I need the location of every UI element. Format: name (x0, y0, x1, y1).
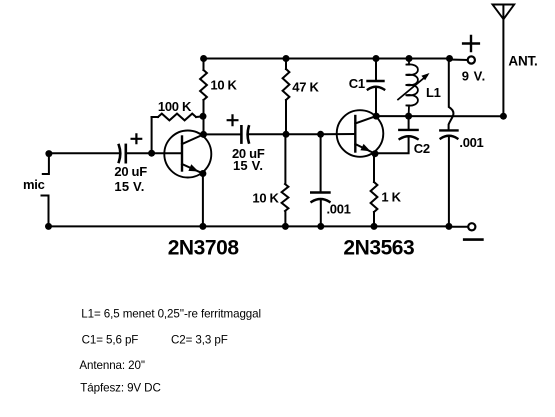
node 47K / 10K divider (283, 131, 290, 138)
node .001 at ground (317, 223, 324, 230)
svg-text:C2= 3,3 pF: C2= 3,3 pF (171, 333, 228, 346)
svg-text:20 uF: 20 uF (114, 164, 147, 179)
node C6 at ground (445, 223, 452, 230)
resistor R5 1K (371, 182, 378, 212)
node antenna junction (500, 113, 507, 120)
plus sign of input 20uF (132, 134, 142, 143)
wire bottom ground rail (49, 225, 450, 227)
capacitor C2 3.3pF (399, 130, 417, 139)
svg-text:9 V.: 9 V. (462, 68, 486, 83)
capacitor C6 .001 supply bypass (440, 130, 457, 138)
transistor Q1 2N3708 (152, 131, 212, 178)
wire C2 top lead (408, 116, 410, 130)
wire 1K bottom lead (373, 212, 375, 226)
svg-text:Tápfesz: 9V DC: Tápfesz: 9V DC (80, 381, 160, 394)
mic top node (45, 150, 52, 157)
mic connector (42, 154, 49, 227)
node 1K at ground (371, 223, 378, 230)
svg-text:ANT.: ANT. (508, 54, 537, 69)
wire Q2 emitter to 1K (373, 154, 375, 182)
wire 100K right lead (196, 115, 203, 118)
node Q2 collector (373, 113, 380, 120)
capacitor C1 5.6pF (368, 81, 385, 90)
node Q1 emitter (199, 170, 206, 177)
resistor R2 100K (158, 114, 196, 121)
wire C6 bottom lead (448, 137, 450, 227)
svg-text:C1= 5,6 pF: C1= 5,6 pF (82, 333, 139, 346)
wire divider node to .001 node (286, 133, 321, 135)
resistor R4 10K lower divider (282, 184, 289, 211)
wire .001 bottom lead (320, 200, 322, 227)
svg-text:100 K: 100 K (158, 99, 192, 114)
antenna (493, 5, 515, 117)
transistor Q2 2N3563 (337, 110, 384, 157)
svg-text:.001: .001 (327, 202, 351, 217)
svg-text:15 V.: 15 V. (233, 158, 263, 173)
svg-text:1 K: 1 K (381, 190, 401, 205)
svg-text:C1: C1 (349, 76, 365, 91)
wire to Q2 base (321, 133, 356, 135)
capacitor C4 20uF interstage (241, 126, 248, 142)
wire mic to C3 input cap (49, 152, 118, 154)
capacitor C3 20uF input coupling (119, 145, 126, 162)
node Q2 emitter (372, 150, 379, 157)
wire C1 top lead (375, 59, 377, 82)
svg-text:2N3563: 2N3563 (343, 236, 414, 259)
plus sign of interstage 20uF (228, 115, 238, 125)
svg-text:L1= 6,5 menet 0,25''-re ferrit: L1= 6,5 menet 0,25''-re ferritmaggal (81, 308, 261, 321)
wire 47K bottom lead (285, 100, 287, 134)
node C1 top (373, 55, 380, 62)
node 10K2 at ground (282, 223, 289, 230)
wire base node up to 100K (151, 117, 153, 153)
svg-text:47 K: 47 K (292, 80, 319, 95)
wire Q2 collector line to antenna junction (376, 115, 503, 117)
node L1 bottom / C2 top (405, 113, 412, 120)
wire top supply rail (204, 58, 450, 60)
node 100K to collector line (200, 113, 207, 120)
svg-text:mic: mic (23, 177, 45, 192)
wire C2 bottom to Q2 emitter (375, 137, 409, 154)
wire 47K top lead (285, 59, 287, 70)
wire minus terminal lead (449, 226, 468, 228)
wire 100K left lead (152, 116, 158, 118)
svg-text:.001: .001 (459, 135, 483, 150)
mic bottom node (45, 223, 52, 230)
node top rail left end (200, 55, 207, 62)
node L1 top (406, 55, 413, 62)
wire 10K2 bottom lead (284, 211, 286, 226)
node 9V branch (446, 55, 453, 62)
svg-text:2N3708: 2N3708 (168, 236, 240, 259)
wire cap to base node (126, 152, 152, 154)
node Q1 emitter at ground (199, 223, 206, 230)
node 47K top (283, 55, 290, 62)
wire .001 top lead (320, 134, 322, 192)
wire Q1 emitter to ground rail (202, 174, 204, 227)
wire 10K top lead (203, 59, 205, 71)
wire collector to C4 interstage cap (204, 133, 241, 135)
plus sign 9V (463, 36, 479, 51)
svg-text:10 K: 10 K (252, 191, 279, 206)
svg-text:C2: C2 (414, 141, 430, 156)
wire divider to 10K2 (284, 134, 286, 184)
resistor R1 10K (200, 70, 207, 100)
minus sign (464, 238, 482, 241)
wire 9V terminal lead (450, 59, 468, 62)
inductor L1 variable coil (398, 59, 430, 117)
wire C1 bottom lead to collector node (375, 88, 377, 117)
wire 9V feed down with hop over antenna line (449, 59, 454, 131)
wire 10K bottom lead to collector node (203, 100, 205, 134)
svg-text:L1: L1 (426, 85, 441, 100)
svg-text:Antenna: 20'': Antenna: 20'' (79, 359, 145, 372)
node base Q1 (148, 150, 155, 157)
svg-text:10 K: 10 K (210, 77, 237, 92)
wire cap to 47K node (249, 133, 286, 135)
node .001 branch (317, 131, 324, 138)
terminal minus (open circle) (468, 223, 475, 230)
svg-text:15 V.: 15 V. (114, 179, 144, 194)
node Q1 collector (200, 131, 207, 138)
capacitor C5 .001 bypass (311, 193, 329, 202)
terminal 9V plus (open circle) (468, 56, 475, 63)
resistor R3 47K (283, 69, 290, 100)
